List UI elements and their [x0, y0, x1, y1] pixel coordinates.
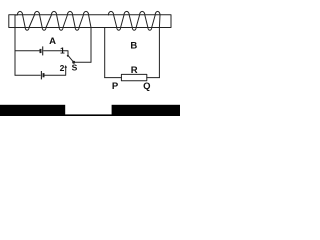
coil B left lead — [104, 28, 106, 78]
switch pivot dot — [72, 61, 75, 64]
svg-text:R: R — [131, 65, 138, 76]
coil A right lead — [90, 28, 92, 63]
cropped black text block right — [112, 105, 180, 116]
wire: battery1 branch left — [15, 50, 40, 52]
wire: B circuit bottom right — [147, 77, 160, 79]
cropped black text baseline strip — [0, 114, 180, 116]
battery 2 negative plate (short thick) — [43, 73, 45, 77]
wire: B circuit bottom left — [105, 77, 122, 79]
iron core bar — [9, 15, 171, 28]
svg-text:B: B — [130, 41, 137, 52]
svg-text:S: S — [72, 62, 78, 72]
contact 1 tip blob — [67, 55, 69, 57]
coil B winding — [108, 11, 160, 30]
battery 2 positive plate (long thin) — [40, 71, 42, 79]
svg-text:A: A — [49, 36, 56, 47]
battery 1 negative plate (short thick) — [40, 49, 42, 53]
resistor R box — [121, 74, 146, 80]
coil A winding — [15, 11, 91, 30]
wire: battery1 branch right + contact 1 stub — [44, 51, 68, 55]
svg-text:2: 2 — [60, 63, 65, 73]
contact 2 arrowhead — [64, 65, 67, 68]
coil A left lead — [14, 15, 16, 75]
svg-text:Q: Q — [143, 81, 150, 92]
svg-text:1: 1 — [60, 46, 65, 56]
switch S blade — [68, 55, 74, 62]
wire: battery2 branch right + contact 2 stub — [45, 67, 66, 76]
wire: battery2 branch left — [15, 74, 40, 76]
battery 1 positive plate (long thin) — [42, 46, 44, 55]
coil B right lead — [158, 28, 160, 78]
cropped black text block left — [0, 105, 65, 116]
svg-text:P: P — [112, 81, 119, 92]
wire: pivot to right vertical — [74, 61, 91, 63]
